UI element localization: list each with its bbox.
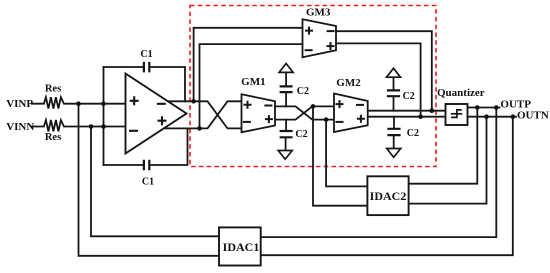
svg-text:Res: Res: [45, 84, 61, 95]
svg-text:GM2: GM2: [336, 77, 361, 89]
svg-text:C2: C2: [295, 129, 307, 140]
svg-text:C2: C2: [403, 91, 415, 102]
svg-text:GM1: GM1: [241, 76, 265, 88]
svg-text:C2: C2: [297, 86, 309, 97]
svg-text:C1: C1: [142, 176, 154, 187]
svg-text:IDAC2: IDAC2: [370, 189, 407, 203]
svg-text:Res: Res: [45, 132, 61, 143]
svg-text:C1: C1: [140, 49, 152, 60]
svg-text:IDAC1: IDAC1: [223, 240, 260, 254]
svg-text:GM3: GM3: [306, 6, 331, 18]
svg-text:VINP: VINP: [6, 98, 33, 110]
svg-text:OUTN: OUTN: [517, 109, 549, 121]
svg-text:C2: C2: [407, 128, 419, 139]
svg-text:VINN: VINN: [6, 121, 34, 133]
svg-text:Quantizer: Quantizer: [437, 87, 485, 99]
